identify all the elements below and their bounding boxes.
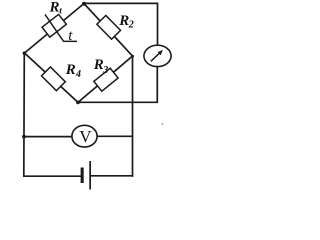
svg-text:4: 4 [75, 69, 81, 80]
svg-text:R: R [49, 0, 60, 16]
svg-text:R: R [65, 62, 76, 78]
svg-text:R: R [118, 13, 129, 29]
svg-text:3: 3 [102, 65, 108, 76]
svg-text:t: t [59, 6, 62, 16]
svg-text:V: V [79, 127, 92, 146]
svg-text:2: 2 [128, 20, 134, 31]
svg-text:R: R [93, 57, 104, 73]
